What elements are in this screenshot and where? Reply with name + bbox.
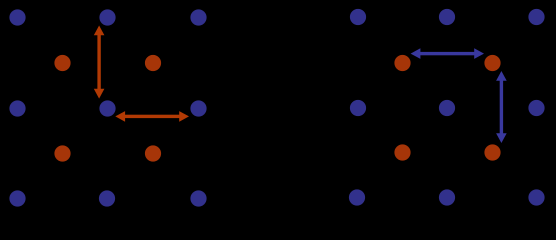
- red site D11: [394, 55, 410, 71]
- blue site A23: [190, 100, 206, 116]
- blue site C12: [439, 9, 455, 25]
- red site B21: [54, 145, 70, 161]
- blue site C11: [350, 9, 366, 25]
- blue site C13: [528, 9, 544, 25]
- right lattice red sites (cell centers): [394, 55, 500, 161]
- blue site A21: [9, 100, 25, 116]
- blue site C32: [439, 189, 455, 205]
- red site D22: [484, 144, 500, 160]
- red site B11: [54, 55, 70, 71]
- left lattice blue sites (3x3 grid): [9, 9, 206, 206]
- blue site C31: [349, 189, 365, 205]
- red site D12: [484, 55, 500, 71]
- blue site C33: [528, 189, 544, 205]
- blue site A33: [190, 190, 206, 206]
- blue site A32: [99, 190, 115, 206]
- blue site A31: [9, 190, 25, 206]
- left lattice red sites (cell centers): [54, 55, 161, 162]
- red site D21: [394, 144, 410, 160]
- blue site C22: [439, 100, 455, 116]
- purple vertical double arrow (right lattice): [496, 71, 507, 143]
- blue site A12: [99, 9, 115, 25]
- blue site A11: [9, 9, 25, 25]
- blue site A22: [99, 100, 115, 116]
- purple horizontal double arrow (right lattice): [411, 48, 484, 59]
- blue site C21: [350, 100, 366, 116]
- red site B12: [145, 55, 161, 71]
- blue site C23: [528, 100, 544, 116]
- red site B22: [145, 145, 161, 161]
- right lattice blue sites (3x3 grid): [349, 9, 545, 206]
- blue site A13: [190, 9, 206, 25]
- orange horizontal double arrow (left lattice): [115, 111, 189, 122]
- orange vertical double arrow (left lattice): [94, 26, 105, 99]
